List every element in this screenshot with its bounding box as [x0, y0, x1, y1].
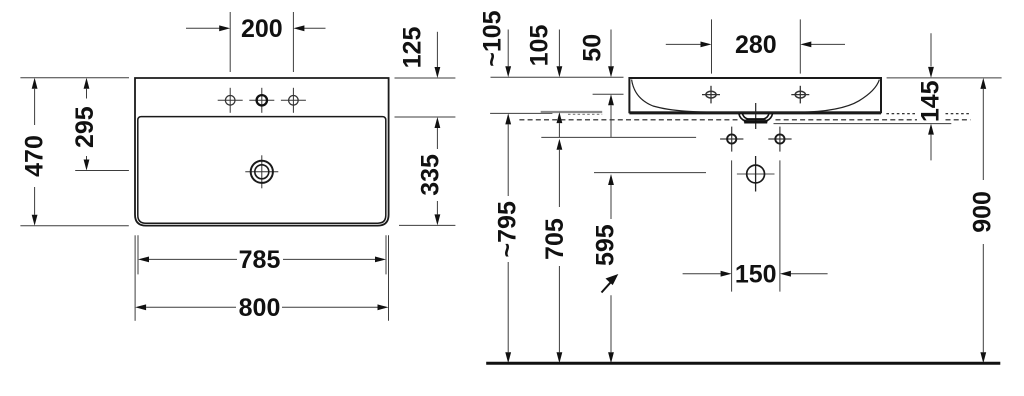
dim 335 — [417, 117, 445, 225]
centreline through drain — [755, 103, 757, 129]
drain centre extension line — [594, 172, 706, 174]
drain fitting (front) — [739, 113, 773, 122]
tap hole right (front) — [791, 86, 809, 104]
wall mounting line (thin, left of basin) — [490, 112, 552, 114]
dim 200 extension lines — [230, 12, 293, 72]
dim 125 — [398, 27, 440, 78]
dim 280 extension lines — [712, 19, 801, 73]
fixing holes extension line — [541, 136, 696, 138]
fixing hole left — [720, 127, 743, 152]
dim 470 — [21, 78, 49, 226]
svg-text:295: 295 — [71, 106, 99, 148]
svg-text:705: 705 — [541, 218, 569, 260]
svg-text:470: 470 — [21, 135, 49, 177]
dim 900 — [969, 78, 997, 363]
dim 145 — [917, 33, 945, 160]
svg-text:125: 125 — [398, 27, 426, 69]
mounting bracket (grey) — [541, 111, 603, 113]
dim 785/800 extension lines — [135, 235, 388, 320]
basin body (front) — [629, 78, 881, 112]
svg-text:595: 595 — [592, 224, 620, 266]
dim 105 — [526, 25, 563, 138]
dim 470 extension lines — [20, 78, 129, 226]
basin outer outline — [135, 78, 389, 226]
dim 800 — [135, 294, 388, 322]
dim ~105 — [479, 10, 512, 77]
svg-text:50: 50 — [579, 34, 607, 62]
hidden shelf line right (dotted) — [886, 113, 970, 115]
svg-text:280: 280 — [735, 31, 777, 59]
floor line — [486, 362, 1000, 365]
dim 295 — [71, 78, 99, 171]
svg-text:800: 800 — [239, 294, 281, 322]
basin bottom shadow edge — [629, 113, 881, 115]
tap hole left (front) — [702, 86, 720, 104]
dim ~795 — [494, 113, 522, 363]
dim 50 — [579, 30, 614, 138]
dim 595 — [592, 174, 620, 363]
tap hole centre (plan) — [249, 88, 274, 113]
siphon cover line — [774, 123, 952, 125]
dim 200 — [186, 15, 326, 43]
top edge extension line (right segment) — [887, 77, 1002, 79]
fixing hole right — [768, 127, 791, 152]
dim 785 — [138, 246, 386, 274]
dim 150 extension lines — [732, 160, 780, 291]
bracket hidden edge (grey dotted) — [568, 113, 602, 115]
basin inner bowl outline — [138, 117, 386, 224]
drain (plan) — [245, 155, 278, 188]
dim 705 — [541, 139, 569, 363]
svg-text:~105: ~105 — [479, 10, 507, 66]
svg-text:~795: ~795 — [494, 201, 522, 257]
tap hole right (plan) — [281, 88, 306, 113]
svg-text:105: 105 — [526, 25, 554, 67]
dim 335 extension line (bottom) — [399, 224, 455, 226]
top edge extension line (left segment) — [491, 76, 624, 78]
svg-text:785: 785 — [239, 246, 281, 274]
svg-text:150: 150 — [735, 260, 777, 288]
svg-text:145: 145 — [917, 80, 945, 122]
tap centreline extension — [593, 93, 624, 95]
dim 150 — [683, 260, 828, 288]
tap hole left (plan) — [218, 88, 243, 113]
hidden wall line (dashed) — [519, 119, 970, 121]
drain outlet circle — [737, 156, 775, 192]
svg-text:900: 900 — [969, 191, 997, 233]
svg-text:200: 200 — [241, 15, 283, 43]
dim 295 drain extension line — [75, 170, 129, 172]
svg-text:335: 335 — [417, 154, 445, 196]
dim 125 extension lines — [395, 78, 456, 117]
basin interior curve — [632, 80, 880, 113]
oblique continuation arrow — [602, 279, 614, 292]
dim 280 — [666, 31, 845, 59]
